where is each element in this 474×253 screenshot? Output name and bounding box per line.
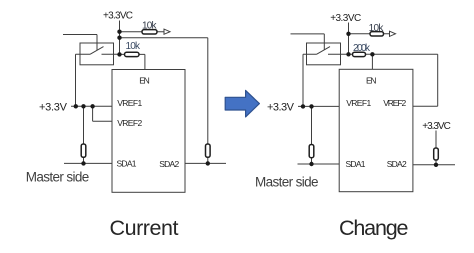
svg-text:EN: EN [139,76,150,86]
svg-text:10k: 10k [142,20,158,31]
svg-text:SDA2: SDA2 [159,159,179,169]
svg-text:+3.3V: +3.3V [267,102,295,114]
svg-text:10k: 10k [369,23,385,34]
svg-text:VREF1: VREF1 [117,98,142,108]
svg-text:Master side: Master side [26,170,90,185]
svg-text:SDA2: SDA2 [387,159,407,169]
svg-text:+3.3VC: +3.3VC [422,121,451,132]
svg-text:EN: EN [366,76,377,86]
svg-text:Master side: Master side [255,174,319,189]
svg-text:+3.3VC: +3.3VC [330,13,361,24]
svg-text:SDA1: SDA1 [346,159,366,169]
svg-text:Current: Current [110,216,179,240]
svg-text:+3.3V: +3.3V [39,101,68,113]
svg-text:200k: 200k [353,43,371,54]
svg-text:+3.3VC: +3.3VC [103,10,133,21]
svg-text:Change: Change [339,216,409,240]
svg-text:VREF1: VREF1 [346,98,371,108]
svg-text:10k: 10k [126,41,142,52]
svg-text:SDA1: SDA1 [117,158,137,168]
svg-text:VREF2: VREF2 [117,118,142,128]
svg-text:VREF2: VREF2 [383,98,406,108]
